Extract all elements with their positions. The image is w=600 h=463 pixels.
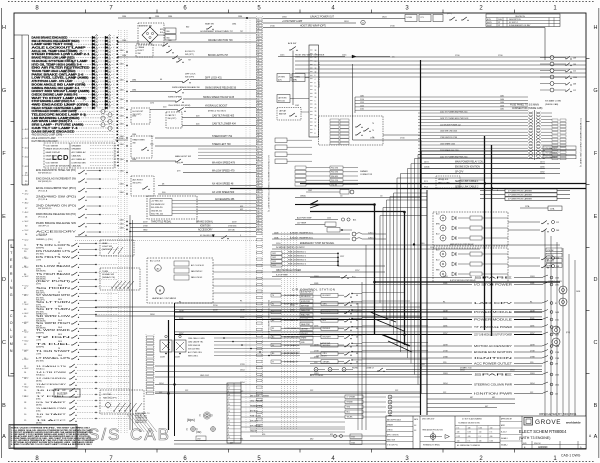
svg-text:52-2: 52-2 [25,239,29,241]
svg-text:1384: 1384 [120,192,124,194]
svg-text:(IGN): (IGN) [36,398,41,400]
svg-text:268: 268 [573,58,576,60]
svg-text:PNL ORG: PNL ORG [331,168,339,170]
svg-text:46: 46 [356,345,358,347]
svg-text:19: 19 [228,437,230,439]
svg-text:ACB SW: ACB SW [288,42,296,45]
svg-text:1432: 1432 [272,257,276,259]
e-hoist thumper solenoid rows [272,232,386,241]
svg-text:CAB TILT: CAB TILT [168,114,177,117]
svg-text:DOME LT: DOME LT [366,368,375,370]
headlight switch cluster [100,240,134,256]
svg-text:D: D [2,277,6,283]
svg-text:SW (MOM): SW (MOM) [36,307,46,309]
svg-text:1431: 1431 [272,253,276,255]
svg-text:11606: 11606 [424,167,430,169]
svg-text:SWING BRAKE RELEASE 56: SWING BRAKE RELEASE 56 [205,87,237,90]
svg-text:49: 49 [258,115,260,117]
svg-text:21: 21 [258,57,260,59]
svg-text:TURN: TURN [102,271,108,273]
ACB switch [288,42,298,105]
svg-text:DIFF LOCK 431: DIFF LOCK 431 [205,78,222,80]
svg-text:1: 1 [228,414,229,416]
svg-text:X.XX: X.XX [457,436,460,438]
zone numbers bottom [35,456,557,462]
svg-text:53-2: 53-2 [25,249,29,251]
svg-text:GRN: GRN [323,303,328,305]
svg-text:DS LOW BEAM: DS LOW BEAM [36,265,70,268]
svg-text:12V TSB: 12V TSB [103,394,112,396]
svg-text:(UN)ACC POWER OUT: (UN)ACC POWER OUT [310,16,335,19]
diode pack cluster [160,335,186,358]
svg-text:1498: 1498 [576,291,580,293]
svg-text:1384: 1384 [120,159,124,161]
svg-text:RED/BLK: RED/BLK [323,328,331,330]
svg-text:9: 9 [315,64,316,66]
svg-text:199: 199 [573,64,576,66]
svg-text:32: 32 [258,105,260,107]
svg-text:112: 112 [556,222,559,224]
svg-text:C: C [2,340,6,346]
svg-text:1162: 1162 [295,105,299,107]
svg-text:55-2: 55-2 [25,267,29,269]
svg-text:X .X: X .X [490,432,493,434]
fuse panel connector pin column [529,110,541,160]
svg-text:ENGINE ECM IGNITION: ENGINE ECM IGNITION [455,167,480,169]
svg-text:12: 12 [58,263,60,265]
svg-text:21DR: 21DR [175,357,180,359]
svg-text:PWR YEL/BK: PWR YEL/BK [250,415,262,417]
svg-text:11 DASH LTS: 11 DASH LTS [36,365,67,368]
svg-text:11: 11 [258,32,260,34]
svg-text:(RED): (RED) [66,50,72,52]
svg-text:30: 30 [315,115,317,117]
svg-text:DESCRIPTION: DESCRIPTION [509,19,521,21]
svg-text:28: 28 [258,179,260,181]
speaker symbol [199,412,213,419]
svg-text:STEERING COLUMN PWR: STEERING COLUMN PWR [474,384,512,386]
svg-text:LAT HORN: LAT HORN [278,97,287,100]
svg-text:VOLT METER: VOLT METER [46,162,59,164]
svg-text:N: N [10,286,13,290]
GROVE logo [524,418,581,427]
zone letters right [593,25,597,440]
svg-text:PWR GND BK: PWR GND BK [188,345,201,347]
spare lamp circles [101,109,112,130]
svg-text:RELAY: RELAY [36,415,43,418]
hoist 3rd wrap override wire [278,54,395,59]
svg-text:STEER LEFT 793: STEER LEFT 793 [212,144,231,146]
svg-text:S/S: S/S [88,425,121,444]
svg-text:BRAKE MODE (FUTURE): BRAKE MODE (FUTURE) [46,148,70,151]
svg-text:1480: 1480 [500,102,504,104]
svg-text:(RH): (RH) [293,80,297,82]
svg-text:80975: 80975 [487,22,492,24]
svg-text:78: 78 [272,312,274,314]
center ladder bus tap labels [120,50,128,230]
wire 1384 top feed [118,16,256,19]
svg-text:BOOM LIGHTS 797: BOOM LIGHTS 797 [208,55,229,57]
wire power module 1438 [175,309,559,314]
svg-text:GND: GND [143,230,148,232]
svg-text:1384: 1384 [132,80,136,82]
svg-text:1384: 1384 [120,171,124,173]
svg-text:X .X: X .X [457,427,460,429]
svg-text:PNL ORG: PNL ORG [331,180,339,182]
svg-text:.010: .010 [468,436,471,438]
svg-text:64-2: 64-2 [25,350,29,352]
svg-text:(RED): (RED) [66,98,72,100]
svg-text:.010: .010 [479,432,482,434]
svg-text:LT PANEL LPS: LT PANEL LPS [36,357,71,360]
svg-text:92: 92 [258,172,260,174]
svg-text:FAN LOW 43: FAN LOW 43 [191,276,202,279]
svg-text:5 POWER FROM CARRIER: 5 POWER FROM CARRIER [508,194,532,197]
svg-text:28: 28 [258,166,260,168]
pwr distrib rows [271,252,385,267]
svg-text:77: 77 [272,361,274,363]
svg-text:CONNECTOR: CONNECTOR [360,174,373,176]
svg-text:12V OUT: 12V OUT [301,333,308,335]
svg-text:72: 72 [258,128,260,130]
svg-text:LIGHT SW: LIGHT SW [102,246,112,248]
svg-text:SPARE: SPARE [474,276,514,279]
svg-text:1384: 1384 [232,24,236,26]
svg-text:MIX DOME LT GRN/BK: MIX DOME LT GRN/BK [250,395,270,397]
svg-text:I: I [11,279,12,283]
svg-text:CABLE(R): CABLE(R) [72,165,82,168]
cab harness connector strip [146,334,154,396]
svg-text:HORN PWR: HORN PWR [301,301,311,303]
svg-text:1/8 536: 1/8 536 [228,230,236,232]
svg-text:C: C [10,314,13,318]
svg-text:H: H [594,25,598,31]
power distribution relay module 1 [433,212,508,246]
svg-text:X .X: X .X [479,436,482,438]
svg-text:SG HORN: SG HORN [36,288,71,290]
svg-text:11: 11 [315,90,317,92]
annunciator second text column [66,40,72,120]
control station ladder [271,293,362,364]
svg-text:ORG T RED/BK: ORG T RED/BK [250,400,264,402]
svg-text:82: 82 [258,121,260,123]
svg-text:B6 RF JACK B6: B6 RF JACK B6 [284,352,299,355]
svg-text:FAN PWR 42: FAN PWR 42 [191,270,202,273]
svg-text:2: 2 [228,431,229,433]
svg-text:47: 47 [258,54,260,56]
svg-text:HR6 LO GRN: HR6 LO GRN [438,183,450,185]
svg-text:ELECT SCHEM RT880E4: ELECT SCHEM RT880E4 [519,429,567,434]
svg-text:1384: 1384 [238,16,242,18]
svg-text:57-2: 57-2 [25,285,29,287]
svg-text:DA/HI BRAKE ENGAGED: DA/HI BRAKE ENGAGED [32,130,75,133]
svg-text:34: 34 [315,118,317,120]
wire power module 2161 [175,317,559,322]
drawing title text [519,429,567,440]
svg-text:83: 83 [258,83,260,85]
svg-text:SW (ACC): SW (ACC) [36,367,45,370]
svg-text:16 IGN 2: 16 IGN 2 [36,390,69,392]
svg-text:SPK GRY: SPK GRY [250,420,259,422]
svg-text:800: 800 [186,27,189,29]
svg-text:1768 536: 1768 536 [228,226,237,228]
svg-text:HEATER A/C CONT WATER: HEATER A/C CONT WATER [152,297,177,300]
svg-text:S/S CONSOLE HARNESS CONNECTOR: S/S CONSOLE HARNESS CONNECTOR (SEE SHEET… [267,155,270,212]
svg-text:IT IS OUR POL: IT IS OUR POL [387,444,398,446]
svg-text:51-2: 51-2 [25,230,29,232]
svg-text:IGNITION: IGNITION [200,226,211,228]
svg-text:83: 83 [258,192,260,194]
svg-text:2-1: 2-1 [66,79,69,81]
svg-text:28: 28 [315,93,317,95]
svg-text:36: 36 [315,126,317,128]
svg-text:1384: 1384 [120,136,124,138]
svg-text:50-2: 50-2 [25,221,29,223]
svg-text:5: 5 [228,384,229,386]
svg-text:.030: .030 [468,427,471,429]
svg-text:66-2: 66-2 [25,368,29,370]
horn switch option [277,105,309,120]
heavy run to right from estop [375,281,561,283]
svg-text:ACCESSORY: ACCESSORY [36,230,77,233]
svg-text:38: 38 [315,50,317,52]
svg-text:SOME BRACKETS OF REV: SOME BRACKETS OF REV [509,24,531,27]
radio pin table [227,383,241,443]
svg-text:13: 13 [258,38,260,40]
svg-text:8: 8 [228,434,229,436]
svg-text:2161 T/T POWER WW PWR 2161: 2161 T/T POWER WW PWR 2161 [440,112,468,114]
svg-text:29: 29 [258,131,260,133]
svg-text:8: 8 [315,133,316,135]
wire acc power outlet [310,361,558,366]
svg-text:LT GRN/BK: LT GRN/BK [347,397,357,399]
svg-text:SW (ACC): SW (ACC) [36,373,45,376]
svg-text:(INSIDE CAB): (INSIDE CAB) [545,103,558,106]
lighting switch boxed rows right [546,248,562,268]
svg-text:R: R [10,272,13,276]
svg-text:6: 6 [228,391,229,393]
svg-text:ACCESSORY: ACCESSORY [198,229,213,232]
svg-text:46: 46 [356,337,358,339]
svg-text:(IGN): (IGN) [36,410,41,412]
svg-text:SPK GRY/BK: SPK GRY/BK [250,425,262,427]
dimmer connector label stack [295,166,373,194]
svg-text:L: L [10,328,12,332]
svg-text:21DR: 21DR [160,357,165,359]
rear steer switch [131,134,152,158]
diff lock switch [130,74,256,84]
svg-text:42-2: 42-2 [25,147,29,149]
svg-text:268: 268 [556,266,559,268]
svg-text:27: 27 [258,67,260,69]
svg-text:GOVERNMENT SRS ACTIVATE 737: GOVERNMENT SRS ACTIVATE 737 [200,30,234,33]
svg-text:1384: 1384 [132,159,136,161]
svg-text:HOIST 3RD WRAP (OPT): HOIST 3RD WRAP (OPT) [300,25,326,28]
carrier bus stub 117A [520,205,562,211]
svg-text:10 START: 10 START [36,413,68,416]
svg-text:46: 46 [356,328,358,330]
svg-text:IG START: IG START [36,401,68,404]
svg-text:X.XX: X.XX [479,427,482,429]
svg-text:17: 17 [315,122,317,124]
serial link cable 2 heavy [230,185,586,189]
svg-text:43-2: 43-2 [25,157,29,159]
heavy diagonal feeders to power rows [370,312,412,352]
svg-text:5: 5 [258,150,259,152]
svg-text:(W/WPR): (W/WPR) [36,248,44,250]
svg-text:20: 20 [58,254,60,256]
zone numbers top [35,6,557,12]
svg-text:POWER MODULE: POWER MODULE [474,319,513,321]
svg-text:20: 20 [58,348,60,350]
svg-text:BLK/WHT: BLK/WHT [323,312,332,314]
svg-text:52: 52 [258,156,260,158]
sensor boxes column zone5 [275,138,312,164]
svg-text:99: 99 [258,25,260,27]
svg-text:63-2: 63-2 [25,341,29,343]
svg-text:T/T I/O MODULE POWER: T/T I/O MODULE POWER [474,327,512,329]
svg-text:96: 96 [258,211,260,213]
svg-text:HYDRAULIC BOOST: HYDRAULIC BOOST [205,105,228,108]
svg-text:SEAT SW: SEAT SW [205,23,214,26]
svg-text:112: 112 [573,90,576,92]
svg-text:78: 78 [258,89,260,91]
svg-text:CONNECTOR (INSIDE CAB): CONNECTOR (INSIDE CAB) [512,107,543,110]
svg-text:D: D [594,277,598,283]
c/r row wire extensions to loop corners [362,293,428,359]
svg-text:56-2: 56-2 [25,276,29,278]
svg-text:.030: .030 [490,436,493,438]
svg-text:90: 90 [258,76,260,78]
acb sw pwr boxed row column [300,290,313,344]
svg-text:2161: 2161 [360,109,364,111]
svg-text:.010: .010 [457,441,460,443]
svg-text:M: M [442,253,444,256]
svg-text:757: 757 [240,31,243,33]
svg-text:DIMMER: DIMMER [360,171,368,173]
svg-text:20: 20 [228,404,230,406]
svg-text:FUNCT: FUNCT [138,50,145,52]
svg-text:G: G [10,293,13,297]
dashed riser bundle to hazard [127,414,157,432]
svg-text:J11 ADD #2 P11: J11 ADD #2 P11 [548,280,562,283]
heavy junction dots [167,203,492,394]
svg-text:62-2: 62-2 [25,331,29,333]
obsoleted stamp [539,412,577,416]
svg-text:72: 72 [258,214,260,216]
s/s main conn label right [545,100,561,106]
svg-text:CRANE FUNCTION 739: CRANE FUNCTION 739 [208,39,233,42]
svg-text:E-STOP PWR: E-STOP PWR [276,275,288,277]
svg-text:1436: 1436 [500,105,504,107]
wire lad cpv [175,301,557,306]
svg-text:2-WD (...): 2-WD (...) [368,232,376,234]
svg-text:1481: 1481 [500,109,504,111]
svg-text:(RED): (RED) [66,40,72,42]
right connector circle cluster 1 [548,280,580,306]
svg-text:B4: B4 [272,320,274,322]
svg-text:.010: .010 [490,427,493,429]
svg-text:G: G [2,88,6,94]
svg-text:69: 69 [258,217,260,219]
svg-text:75: 75 [258,227,260,229]
svg-text:1 TO CARRIER: 1 TO CARRIER [545,147,558,150]
svg-text:30: 30 [258,35,260,37]
swing brake release switch [130,86,256,93]
svg-text:BOOM LTS: BOOM LTS [185,51,195,53]
svg-text:+CCW TEMP LAMP: +CCW TEMP LAMP [282,20,303,23]
svg-text:X .X: X .X [468,441,471,443]
svg-text:PC1: PC1 [352,277,356,279]
svg-text:1384: 1384 [120,80,124,82]
svg-text:YEL/BK: YEL/BK [347,417,354,419]
svg-text:41-2: 41-2 [25,138,29,140]
svg-text:SW (MOM): SW (MOM) [36,271,46,273]
heavy feed verticals left of loop [169,204,405,436]
wires above title block [427,397,515,412]
svg-text:CABLE(R): CABLE(R) [72,155,82,158]
svg-text:(OPT): (OPT) [36,284,42,286]
svg-text:2150: 2150 [360,99,364,101]
svg-text:A: A [2,434,6,440]
svg-text:WORN: WORN [352,368,358,370]
main hoist speed switch [130,155,256,173]
cab tilt switch [132,112,256,128]
wire rows 1382A [295,195,421,198]
svg-text:BRAKE SIGNAL: BRAKE SIGNAL [196,221,214,224]
svg-text:1255: 1255 [360,105,364,107]
svg-text:1384: 1384 [120,184,124,186]
svg-text:25: 25 [315,108,317,110]
wire 2186 to LCD [115,138,128,140]
svg-text:4: 4 [315,79,316,81]
svg-text:LAD CPV: LAD CPV [474,302,514,305]
svg-text:A31: A31 [353,218,356,221]
svg-text:ANT BLU: ANT BLU [250,409,258,412]
radio feed wires [241,395,420,432]
svg-text:POWER MODULE: POWER MODULE [474,312,513,314]
svg-text:34: 34 [258,201,260,203]
svg-text:ACC SW: ACC SW [547,259,554,262]
svg-text:C3 PROG CONN (OPT): C3 PROG CONN (OPT) [317,62,320,88]
svg-text:IGN SW: IGN SW [547,255,554,257]
svg-text:LTG PWR: LTG PWR [301,319,309,321]
svg-text:1175: 1175 [150,103,154,105]
wire engine ecm ignition 2 [310,350,559,355]
svg-text:LCD DISPLAY (W/GAUGE): LCD DISPLAY (W/GAUGE) [46,165,71,168]
svg-text:ENG DIAGNOSTIC HI/SEL SW (PO): ENG DIAGNOSTIC HI/SEL SW (PO) [36,169,76,172]
relay output wires with switches [508,221,559,269]
svg-text:(MOM): (MOM) [36,380,42,382]
svg-text:B: B [594,403,598,409]
gnd wire run [155,375,420,377]
svg-text:DIMMER (+) (PNL): DIMMER (+) (PNL) [36,239,53,241]
svg-text:10: 10 [258,86,260,88]
svg-text:12: 12 [228,388,230,390]
svg-text:(MOM): (MOM) [36,422,42,424]
svg-text:DS HAZARD LTS: DS HAZARD LTS [36,250,71,253]
svg-text:46: 46 [258,64,260,66]
svg-text:1382A: 1382A [300,195,306,198]
svg-text:RED/WHT: RED/WHT [323,337,332,339]
svg-text:3 TO CARRIER: 3 TO CARRIER [545,156,558,159]
svg-text:RJ: RJ [272,328,274,330]
main power relay coil run [420,161,560,164]
svg-text:LO/HI: LO/HI [36,340,41,342]
svg-text:407: 407 [230,442,233,444]
svg-text:DIM GRN: DIM GRN [331,176,339,178]
wire 112 run lower [155,390,420,392]
